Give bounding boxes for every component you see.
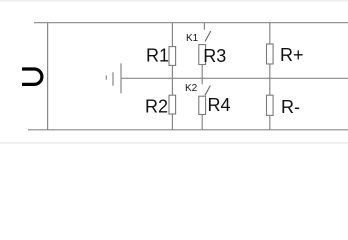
svg-text:R+: R+ xyxy=(280,45,304,65)
ground (left end of middle wire) xyxy=(106,63,121,93)
magnetic core clamp (U) around left conductor xyxy=(22,69,42,84)
wire col3 middle xyxy=(269,64,271,95)
wire top rail xyxy=(34,22,348,24)
svg-text:R3: R3 xyxy=(203,46,226,66)
svg-text:R1: R1 xyxy=(146,46,169,66)
wire col1 top xyxy=(171,23,173,47)
wire col3 bottom xyxy=(269,115,271,129)
wire col2 middle xyxy=(201,65,203,85)
wire bottom rail xyxy=(28,129,348,131)
switch K1 blade xyxy=(205,31,211,42)
wire col1 bottom xyxy=(171,114,173,130)
svg-text:R-: R- xyxy=(281,97,300,117)
switch K2 blade xyxy=(205,86,210,96)
resistor R2 xyxy=(169,95,176,114)
resistor R3 xyxy=(199,45,206,65)
wire col3 top xyxy=(269,23,271,45)
resistor R- xyxy=(267,95,274,115)
resistor R1 xyxy=(169,47,176,66)
wire middle (bridge output to ground) xyxy=(121,77,348,79)
resistor R+ xyxy=(267,44,274,64)
faint page border top xyxy=(0,0,348,2)
svg-text:K1: K1 xyxy=(186,33,199,44)
svg-text:K2: K2 xyxy=(185,83,198,94)
switch K1 fixed stub xyxy=(203,23,205,30)
svg-text:R2: R2 xyxy=(145,97,168,117)
wire col1 middle xyxy=(171,65,173,95)
resistor R4 xyxy=(199,96,206,114)
wire left vertical xyxy=(47,23,49,130)
wire col2 bottom xyxy=(201,115,203,130)
svg-text:R4: R4 xyxy=(208,95,231,115)
faint page border bottom xyxy=(0,142,348,144)
